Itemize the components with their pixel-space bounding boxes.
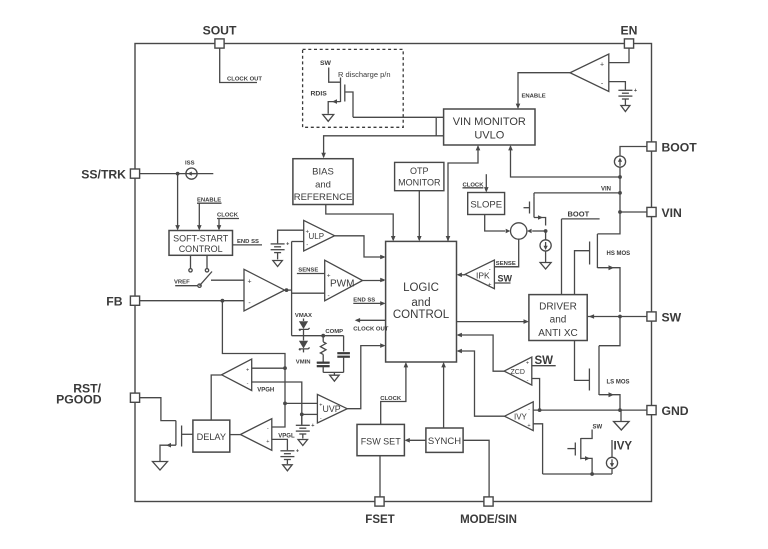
svg-text:DRIVER: DRIVER: [539, 301, 577, 312]
svg-text:CONTROL: CONTROL: [393, 309, 450, 321]
pin FB: [130, 296, 139, 305]
svg-text:OTP: OTP: [410, 166, 429, 176]
ground UVP reference: [298, 440, 308, 446]
wire LOGIC to DRIVER: [457, 321, 528, 323]
svg-text:HS MOS: HS MOS: [607, 251, 631, 257]
comparator UVP: [317, 394, 347, 423]
svg-text:+: +: [488, 282, 492, 288]
svg-text:BOOT: BOOT: [662, 141, 698, 155]
svg-text:+: +: [246, 368, 249, 374]
ground of RDIS: [323, 115, 334, 122]
svg-text:SYNCH: SYNCH: [428, 436, 461, 447]
wire SYNCH to FSW SET: [406, 439, 426, 441]
transistor current sense: [533, 193, 535, 197]
transistor HS MOS: [575, 251, 590, 295]
wire CLOCK OUT stub from SOUT: [220, 48, 257, 82]
block DELAY: [193, 420, 230, 452]
svg-text:R discharge p/n: R discharge p/n: [338, 70, 391, 79]
pin SS/TRK: [130, 169, 139, 178]
svg-text:IVY: IVY: [514, 412, 528, 421]
svg-text:SW: SW: [498, 273, 513, 283]
svg-text:PGOOD: PGOOD: [56, 393, 102, 407]
svg-text:BOOT: BOOT: [568, 210, 590, 219]
wire SW pin to DRIVER: [587, 316, 647, 318]
wire FB to error amp -: [140, 300, 244, 302]
wire rail to VIN MONITOR bottom: [511, 147, 621, 178]
wire to UVP +: [285, 402, 317, 404]
dashed box R discharge p/n: [303, 49, 404, 127]
wire VREF to error amp +: [211, 279, 244, 281]
svg-text:GND: GND: [662, 404, 689, 418]
wire EN to comparator +: [609, 48, 629, 62]
svg-text:SS/TRK: SS/TRK: [81, 167, 126, 181]
svg-text:VREF: VREF: [174, 279, 190, 285]
svg-text:SOFT-START: SOFT-START: [173, 233, 229, 243]
capacitor COMP series: [317, 361, 330, 363]
wire COMP rail: [292, 335, 344, 337]
wire sense to summing node: [532, 230, 545, 232]
svg-text:RDIS: RDIS: [311, 91, 328, 98]
svg-text:LS MOS: LS MOS: [607, 379, 630, 385]
svg-text:-: -: [267, 426, 269, 432]
wire PWM output to LOGIC: [363, 280, 385, 282]
block OTP MONITOR: [395, 162, 444, 190]
svg-text:-: -: [320, 415, 322, 421]
svg-text:-: -: [247, 381, 249, 387]
wire SS/TRK to SOFT-START: [177, 174, 179, 229]
svg-text:BIAS: BIAS: [312, 167, 334, 178]
wire CLOCK OUT from LOGIC: [356, 319, 385, 321]
ground ULP reference: [273, 261, 283, 267]
svg-text:+: +: [296, 448, 299, 454]
op-amp error amplifier: [244, 269, 285, 311]
wire VIN pin to rail: [620, 211, 647, 213]
svg-text:ZCD: ZCD: [511, 369, 525, 376]
svg-text:END SS: END SS: [237, 239, 259, 245]
resistor COMP compensation: [322, 336, 324, 342]
comparator VPGL: [240, 419, 271, 451]
summing node slope comparator: [511, 223, 527, 239]
wire IVY sense bottom: [543, 473, 612, 475]
svg-text:EN: EN: [621, 24, 638, 38]
capacitor COMP parallel: [343, 336, 345, 352]
battery VPGL reference: [280, 450, 294, 452]
svg-text:COMP: COMP: [325, 329, 343, 335]
wire branch to BIAS block: [324, 117, 444, 157]
ground sense bias: [540, 263, 551, 270]
wire COMP vertical: [291, 242, 293, 336]
svg-text:+: +: [527, 423, 530, 429]
svg-text:FSET: FSET: [365, 514, 394, 526]
svg-text:CLOCK OUT: CLOCK OUT: [353, 326, 388, 332]
svg-text:+: +: [600, 61, 604, 68]
wire VIN to sense fet: [534, 192, 620, 194]
wire ULP output to LOGIC: [335, 236, 384, 257]
wire IVY + sense: [533, 424, 542, 474]
svg-text:-: -: [306, 242, 308, 248]
wire ENABLE comparator to VIN MONITOR: [518, 73, 570, 108]
pin BOOT: [647, 142, 656, 151]
zener VMIN clamp: [303, 336, 305, 341]
svg-text:+: +: [306, 229, 310, 235]
wire CLOCK FSW SET to LOGIC: [381, 364, 406, 425]
block SLOPE: [468, 193, 505, 215]
wire ULP + to reference: [278, 230, 304, 243]
svg-text:+: +: [247, 278, 251, 285]
svg-text:ENABLE: ENABLE: [522, 93, 546, 99]
wire to VPGH +: [252, 367, 285, 369]
svg-text:VMIN: VMIN: [296, 360, 311, 366]
svg-text:MODE/SIN: MODE/SIN: [460, 514, 517, 526]
wire OTP to LOGIC: [418, 191, 420, 240]
wire SS/TRK to ISS: [140, 173, 214, 175]
svg-text:-: -: [527, 378, 529, 384]
block LOGIC and CONTROL: [386, 241, 457, 362]
svg-text:CLOCK: CLOCK: [380, 396, 402, 402]
svg-text:+: +: [319, 402, 322, 408]
svg-text:SOUT: SOUT: [203, 24, 237, 38]
svg-text:SW: SW: [662, 311, 682, 325]
wire RDIS gate to VIN MONITOR: [353, 116, 444, 118]
wire UVP - to reference: [302, 413, 318, 415]
svg-text:ISS: ISS: [185, 160, 195, 166]
wire VPGL output to DELAY: [230, 434, 241, 436]
svg-text:SW: SW: [593, 425, 603, 431]
comparator EN U1: [570, 54, 609, 92]
current source BOOT charge: [614, 156, 625, 167]
wire VPGH output to DELAY: [211, 375, 221, 420]
svg-text:VMAX: VMAX: [295, 313, 312, 319]
comparator ZCD: [504, 357, 532, 385]
svg-text:ULP: ULP: [309, 232, 325, 241]
battery ULP reference: [271, 243, 285, 245]
svg-text:SENSE: SENSE: [298, 267, 318, 273]
block SOFT-START CONTROL: [169, 231, 233, 256]
svg-text:SW: SW: [320, 60, 332, 67]
svg-text:and: and: [550, 314, 567, 325]
wire FSW SET to FSET pin: [379, 456, 381, 497]
svg-text:ANTI XC: ANTI XC: [538, 328, 577, 339]
svg-text:VPGH: VPGH: [257, 387, 274, 393]
svg-text:UVP: UVP: [323, 404, 341, 414]
wire SYNCH to MODE/SIN pin: [463, 440, 489, 497]
battery UVP reference: [301, 414, 303, 424]
wire BOOT pin to current source: [620, 147, 647, 157]
pin SOUT: [215, 39, 224, 48]
wire COMP network bottom: [323, 371, 343, 373]
svg-text:VIN: VIN: [662, 206, 682, 220]
svg-text:-: -: [528, 406, 530, 412]
pin MODE/SIN: [484, 497, 493, 506]
wire ULP - to COMP line: [292, 241, 304, 243]
wire ZCD - to GND rail: [532, 379, 540, 411]
svg-text:+: +: [286, 241, 289, 247]
transistor PGOOD open drain: [175, 421, 177, 446]
comparator PWM: [325, 260, 363, 301]
wire summing node to IPK: [494, 239, 518, 266]
wire SYNCH to LOGIC: [443, 364, 445, 429]
block VIN MONITOR UVLO: [444, 109, 535, 145]
ground COMP network: [330, 375, 340, 381]
svg-text:UVLO: UVLO: [474, 129, 504, 141]
wire VPGH + input: [252, 367, 285, 369]
svg-text:SLOPE: SLOPE: [470, 199, 502, 210]
wire UVP output to LOGIC: [347, 346, 384, 409]
wire VPGH - to reference: [252, 382, 302, 425]
svg-text:LOGIC: LOGIC: [403, 282, 439, 294]
ground EN reference: [621, 106, 630, 112]
svg-text:REFERENCE: REFERENCE: [294, 192, 353, 203]
svg-text:FB: FB: [106, 295, 122, 309]
comparator IVY: [505, 402, 534, 431]
svg-text:+: +: [526, 361, 529, 367]
pin RST/PGOOD: [130, 393, 139, 402]
block FSW SET: [357, 424, 404, 455]
svg-text:ENABLE: ENABLE: [197, 197, 221, 203]
svg-text:and: and: [411, 297, 430, 309]
svg-text:+: +: [327, 272, 331, 279]
wire IPK output to LOGIC: [458, 274, 465, 276]
svg-text:IVY: IVY: [614, 440, 633, 452]
pin FSET: [375, 497, 384, 506]
wire IVY output to LOGIC: [458, 351, 505, 416]
ground PGOOD fet: [153, 462, 168, 471]
svg-text:FSW SET: FSW SET: [361, 436, 402, 446]
wire VIN rail: [597, 167, 620, 234]
pin VIN: [647, 207, 656, 216]
wire error amp to PWM -: [292, 292, 325, 294]
pin EN: [624, 39, 633, 48]
wire SLOPE to summing node: [485, 215, 506, 232]
svg-text:PWM: PWM: [330, 278, 354, 289]
transistor LS MOS: [599, 317, 620, 346]
block DRIVER and ANTI XC: [529, 295, 587, 341]
switch VREF select: [190, 255, 192, 268]
svg-text:-: -: [489, 267, 491, 273]
block SYNCH: [426, 428, 463, 452]
IC outer boundary: [135, 44, 652, 502]
comparator ULP: [304, 220, 335, 251]
current source sense bias: [545, 231, 547, 240]
battery EN reference: [618, 89, 632, 91]
svg-text:CLOCK: CLOCK: [217, 213, 239, 219]
svg-text:+: +: [311, 423, 314, 429]
svg-text:-: -: [328, 292, 330, 299]
svg-text:SENSE: SENSE: [496, 261, 516, 267]
svg-text:VIN: VIN: [601, 186, 611, 192]
svg-text:+: +: [634, 88, 637, 94]
wire comparator - to reference: [609, 82, 626, 90]
comparator VPGH: [222, 359, 252, 390]
wire GND rail: [533, 409, 647, 411]
pin GND: [647, 406, 656, 415]
svg-text:DELAY: DELAY: [197, 432, 226, 442]
svg-text:+: +: [266, 439, 269, 445]
block BIAS and REFERENCE: [293, 159, 353, 205]
wire ZCD output to LOGIC: [458, 335, 504, 371]
svg-text:CONTROL: CONTROL: [179, 244, 223, 254]
wire FB sense down to monitors: [222, 301, 285, 427]
wire RST/PGOOD to fet: [140, 398, 176, 421]
wire error amp output: [285, 289, 292, 291]
svg-text:VIN MONITOR: VIN MONITOR: [453, 116, 526, 128]
pin SW: [647, 312, 656, 321]
svg-text:MONITOR: MONITOR: [398, 177, 441, 187]
ground main: [620, 410, 622, 421]
ground VPGL reference: [283, 465, 293, 471]
comparator IPK: [465, 260, 494, 289]
svg-text:and: and: [315, 180, 331, 191]
wire BIAS to LOGIC: [326, 205, 393, 241]
link LOGIC to VIN MONITOR: [448, 147, 478, 242]
wire VPGL + to reference: [272, 439, 288, 450]
svg-text:CLOCK OUT: CLOCK OUT: [227, 76, 262, 82]
